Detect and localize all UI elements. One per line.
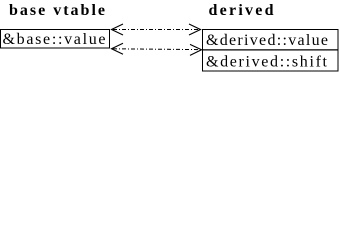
dashed arrow bottom (double-headed, base bottom edge to derived divider) <box>112 43 202 55</box>
label &derived::shift <box>206 54 328 71</box>
heading "base vtable" <box>9 2 105 19</box>
svg-text:base vtable: base vtable <box>9 2 105 19</box>
svg-text:&derived::value: &derived::value <box>206 32 328 49</box>
label &base::value <box>3 31 106 48</box>
box base vtable cell <box>1 30 110 49</box>
svg-text:&derived::shift: &derived::shift <box>206 54 328 71</box>
svg-text:&base::value: &base::value <box>3 31 106 48</box>
label &derived::value <box>206 32 328 49</box>
box derived vtable (two cells) <box>203 30 339 71</box>
heading "derived" <box>209 2 274 19</box>
dashed arrow top (double-headed, base top edge to derived top edge) <box>112 24 201 35</box>
